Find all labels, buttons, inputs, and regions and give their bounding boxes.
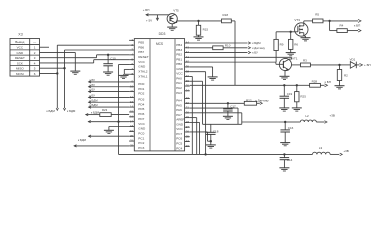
svg-text:к БУ: к БУ <box>252 51 258 55</box>
svg-text:R28: R28 <box>312 80 318 84</box>
wire pin6 GND to ground bus <box>119 64 130 66</box>
wire pin38 down to bottom bus <box>190 71 206 73</box>
ground under R15 <box>194 36 204 38</box>
wire VT3 source to ground <box>303 33 305 36</box>
capacitor C17 <box>227 103 229 109</box>
svg-text:22: 22 <box>130 144 134 148</box>
wire R18 down to R26 row <box>231 20 235 22</box>
svg-text:36: 36 <box>186 79 190 83</box>
svg-text:PC1: PC1 <box>138 136 144 140</box>
wire pin44 to BDM <box>190 42 248 44</box>
svg-text:32: 32 <box>186 101 190 105</box>
svg-text:PC3: PC3 <box>138 146 144 150</box>
wire R5 node output arrow <box>330 20 358 22</box>
wire MISO drop to BDM <box>64 68 66 108</box>
svg-text:11: 11 <box>130 89 133 93</box>
svg-text:PB4: PB4 <box>176 43 182 47</box>
svg-text:+3В: +3В <box>343 149 348 153</box>
svg-text:VT1: VT1 <box>292 56 298 60</box>
svg-text:GND: GND <box>176 67 184 71</box>
svg-text:GND: GND <box>176 122 184 126</box>
svg-text:VCC: VCC <box>138 60 145 64</box>
svg-text:VCC: VCC <box>176 72 183 76</box>
svg-text:16: 16 <box>130 114 134 118</box>
svg-text:к Датчику: к Датчику <box>255 98 269 102</box>
svg-text:AREF: AREF <box>176 118 184 122</box>
wire L3 output arrow +3V <box>330 153 339 155</box>
wire pin28 down to bus <box>190 121 200 123</box>
wire pin42 to BU <box>190 52 248 54</box>
svg-text:27: 27 <box>186 125 190 129</box>
svg-text:C10: C10 <box>110 57 116 61</box>
svg-text:33: 33 <box>186 96 190 100</box>
DD3 right pin names and stubs <box>185 42 190 44</box>
svg-text:VD1: VD1 <box>350 57 356 61</box>
svg-text:34: 34 <box>186 88 190 92</box>
svg-text:30: 30 <box>186 110 190 114</box>
svg-text:PA3: PA3 <box>176 91 182 95</box>
VT1 emitter diagonal <box>283 67 288 70</box>
svg-text:+ БП: + БП <box>364 63 371 67</box>
resistor R3 <box>301 63 311 67</box>
svg-text:DD3: DD3 <box>159 32 166 36</box>
wire MOSI drop to BDM <box>56 73 58 108</box>
svg-text:R3: R3 <box>303 59 307 63</box>
resistor R18 <box>222 19 232 23</box>
svg-text:к БУ: к БУ <box>90 83 96 87</box>
svg-text:L3: L3 <box>319 146 323 150</box>
wire L2 output arrow +3V <box>316 121 324 123</box>
svg-text:13: 13 <box>130 100 134 104</box>
wire bottom ground bus <box>119 153 285 155</box>
svg-text:VCC: VCC <box>176 127 183 131</box>
wire GND row to ground <box>40 51 76 53</box>
svg-text:PA0: PA0 <box>176 76 182 80</box>
svg-text:26: 26 <box>186 130 190 134</box>
wire pin39 GND to ground <box>190 66 213 68</box>
wire pin41 to VT1 collector <box>190 56 292 58</box>
wire R15 node to R18 <box>199 20 222 22</box>
svg-text:PD1: PD1 <box>138 87 144 91</box>
wire pin26 PC7 to C18 node <box>190 131 208 133</box>
svg-text:38: 38 <box>186 69 190 73</box>
svg-text:PB1: PB1 <box>176 57 182 61</box>
wire VT5 collector output <box>175 22 177 24</box>
wire VCC row stub <box>40 46 50 48</box>
wire down to R4 <box>329 21 331 31</box>
svg-text:к БП: к БП <box>354 24 360 28</box>
svg-text:44: 44 <box>186 41 190 45</box>
svg-text:RESET: RESET <box>138 55 148 59</box>
resistor R25 <box>296 85 298 91</box>
svg-text:39: 39 <box>186 65 190 69</box>
wire R26 output arrow kBP <box>320 84 324 86</box>
wire pin29 down to bus <box>190 117 197 119</box>
wire к БДМ to pin <box>89 106 130 108</box>
wire R4 output arrow <box>347 30 358 32</box>
svg-text:35: 35 <box>186 84 190 88</box>
svg-text:21: 21 <box>130 139 134 143</box>
svg-text:R15: R15 <box>203 27 209 31</box>
svg-text:PD4: PD4 <box>138 102 144 106</box>
svg-text:R23: R23 <box>102 108 108 112</box>
svg-text:R10: R10 <box>225 43 231 47</box>
wire к БДМ to pin <box>89 101 130 103</box>
node on VCC pin17 wire <box>117 120 119 122</box>
svg-text:GND: GND <box>138 127 146 131</box>
svg-text:PC2: PC2 <box>138 141 144 145</box>
svg-text:GND: GND <box>17 51 25 55</box>
wire VD1 output arrow +BP <box>356 64 359 66</box>
node after R5 <box>323 20 330 22</box>
DD3 left pin names and stubs <box>129 39 134 41</box>
svg-text:VT3: VT3 <box>294 18 300 22</box>
svg-text:C16: C16 <box>288 126 294 130</box>
wire VT5 emitter to ground <box>171 24 173 27</box>
svg-text:RESET: RESET <box>15 56 25 60</box>
svg-text:23: 23 <box>186 144 190 148</box>
wire L2 bus <box>203 123 242 125</box>
svg-text:PA2: PA2 <box>176 86 182 90</box>
svg-text:C18: C18 <box>213 130 219 134</box>
svg-text:PD0: PD0 <box>138 82 144 86</box>
svg-text:15: 15 <box>130 110 134 114</box>
wire к БУ to pin <box>89 86 130 88</box>
svg-text:VT5: VT5 <box>173 8 179 12</box>
VT1 collector diagonal <box>283 59 289 63</box>
svg-text:X3: X3 <box>18 33 22 37</box>
svg-text:31: 31 <box>186 106 190 110</box>
svg-text:к БП: к БП <box>325 80 331 84</box>
svg-text:к БДМ: к БДМ <box>90 103 99 107</box>
svg-text:PB2: PB2 <box>176 53 182 57</box>
svg-text:—: — <box>33 40 36 44</box>
svg-text:GND: GND <box>138 65 146 69</box>
svg-text:17: 17 <box>130 119 134 123</box>
resistor R15 <box>198 21 200 25</box>
svg-text:R18: R18 <box>223 13 229 17</box>
svg-text:20: 20 <box>130 134 134 138</box>
svg-text:к БДМ: к БДМ <box>46 109 55 113</box>
wire MOSI row to pin 2 <box>40 72 58 74</box>
svg-text:к БУ: к БУ <box>90 78 96 82</box>
microcontroller DD3 <box>134 39 184 151</box>
svg-text:VCC: VCC <box>138 122 145 126</box>
resistor R6 <box>290 32 292 40</box>
svg-text:14: 14 <box>130 105 134 109</box>
wire pin31 to L2 bus <box>190 107 238 109</box>
resistor R9 <box>275 32 277 40</box>
wire VCC pin17 to left arrow <box>88 121 129 123</box>
svg-text:PC4: PC4 <box>176 146 182 150</box>
node R15 top <box>197 20 199 22</box>
svg-text:24: 24 <box>186 139 190 143</box>
svg-text:PB7: PB7 <box>138 50 144 54</box>
svg-text:R2: R2 <box>344 74 348 78</box>
svg-text:12: 12 <box>130 95 134 99</box>
svg-text:R6: R6 <box>294 43 298 47</box>
svg-text:PA6: PA6 <box>176 108 182 112</box>
svg-text:19: 19 <box>130 129 134 133</box>
node C16 junction <box>284 121 286 123</box>
svg-text:PD3: PD3 <box>138 98 144 102</box>
svg-text:VCC: VCC <box>17 46 24 50</box>
resistor R4 <box>337 29 347 33</box>
wire SCK row to pin 5 <box>40 62 94 64</box>
svg-text:10: 10 <box>130 84 134 88</box>
svg-text:PA7: PA7 <box>176 113 182 117</box>
svg-text:MISO: MISO <box>16 67 24 71</box>
svg-text:PB3: PB3 <box>176 48 182 52</box>
wire pin30 to L2 bus <box>190 112 242 114</box>
wire VT3 drain to R5 <box>303 21 305 26</box>
wire pin32 to sensor through R22 <box>190 102 228 104</box>
wire pin36 to L2 bus <box>190 80 203 82</box>
wire GND pin18 branch to ground <box>109 126 129 128</box>
svg-text:37: 37 <box>186 74 190 78</box>
svg-text:25: 25 <box>186 134 190 138</box>
wire VT3 gate node <box>276 31 296 33</box>
ground under R6 <box>286 52 296 54</box>
resistor R5 <box>313 19 323 23</box>
wire pin37 down to bottom bus <box>190 75 193 77</box>
svg-text:29: 29 <box>186 115 190 119</box>
svg-text:SCK: SCK <box>17 61 23 65</box>
wire VT1 base <box>279 63 283 65</box>
svg-text:42: 42 <box>186 50 190 54</box>
wire pin43 through R10 to sensor <box>190 47 213 49</box>
wire pin40 to VT1 base <box>190 61 276 63</box>
wire pin35 row to R26 <box>190 84 284 86</box>
svg-text:43: 43 <box>186 45 190 49</box>
svg-text:PD7: PD7 <box>138 117 144 121</box>
wire VT1 collector to R3 <box>292 64 301 66</box>
wire к БУ to pin <box>89 96 130 98</box>
ground near X3 <box>70 70 80 72</box>
wire RESET row to pin 4 <box>40 57 97 59</box>
svg-text:PA4: PA4 <box>176 99 182 103</box>
capacitor C10 <box>107 55 109 64</box>
resistor R2 <box>339 65 341 70</box>
wire MISO row to pin 3 <box>40 67 65 69</box>
crystal bracket XTAL pins <box>124 68 129 70</box>
svg-text:к БДМ: к БДМ <box>67 109 76 113</box>
svg-text:+3В: +3В <box>330 114 335 118</box>
svg-text:C19: C19 <box>287 92 293 96</box>
svg-text:MOSI: MOSI <box>16 72 24 76</box>
svg-text:к БУ: к БУ <box>90 93 96 97</box>
svg-text:R25: R25 <box>300 95 306 99</box>
svg-text:PD5: PD5 <box>138 107 144 111</box>
svg-text:PA1: PA1 <box>176 81 182 85</box>
wire R3 to VD1 node <box>310 64 339 66</box>
svg-text:PB5: PB5 <box>138 40 144 44</box>
svg-text:40: 40 <box>186 60 190 64</box>
wire PC3 to left arrow <box>74 145 129 147</box>
svg-text:PC0: PC0 <box>138 131 144 135</box>
svg-text:к Датчику: к Датчику <box>252 46 265 50</box>
svg-text:+ 5V: + 5V <box>146 18 152 22</box>
svg-text:R9: R9 <box>280 43 284 47</box>
svg-text:XTAL2: XTAL2 <box>138 70 148 74</box>
svg-text:+ БП: + БП <box>143 8 150 12</box>
svg-text:18: 18 <box>130 124 134 128</box>
wire +BP to VT5 <box>146 14 169 16</box>
svg-text:к БДМ: к БДМ <box>78 138 87 142</box>
ground under R2 <box>335 85 345 87</box>
svg-text:PD6: PD6 <box>138 112 144 116</box>
resistor R23 line <box>86 114 100 116</box>
svg-text:PC6: PC6 <box>176 137 182 141</box>
svg-text:41: 41 <box>186 55 190 59</box>
svg-text:Вывод: Вывод <box>15 40 24 44</box>
svg-text:к БДМ: к БДМ <box>252 41 261 45</box>
wire к БУ to pin <box>89 81 130 83</box>
wire PC1 to left arrow <box>89 135 130 137</box>
resistor R28 <box>310 83 321 87</box>
svg-text:MCS: MCS <box>156 42 163 46</box>
node C14 junction <box>283 153 285 155</box>
svg-text:XTAL1: XTAL1 <box>138 74 148 78</box>
svg-text:L2: L2 <box>305 114 309 118</box>
svg-text:к БДМ: к БДМ <box>90 98 99 102</box>
svg-text:к БУ: к БУ <box>90 88 96 92</box>
svg-text:PC7: PC7 <box>176 132 182 136</box>
node C10 junction <box>107 54 109 56</box>
svg-text:PC5: PC5 <box>176 142 182 146</box>
svg-text:PB0: PB0 <box>176 62 182 66</box>
wire VT1 emitter to ground <box>285 69 289 72</box>
svg-text:PD2: PD2 <box>138 92 144 96</box>
svg-text:PA5: PA5 <box>176 103 182 107</box>
wire к БУ to pin <box>89 91 130 93</box>
svg-text:28: 28 <box>186 120 190 124</box>
svg-text:к БДМ: к БДМ <box>91 111 100 115</box>
svg-text:PB6: PB6 <box>138 45 144 49</box>
svg-text:R5: R5 <box>315 12 319 16</box>
svg-text:R22: R22 <box>246 98 252 102</box>
svg-text:R4: R4 <box>340 24 344 28</box>
